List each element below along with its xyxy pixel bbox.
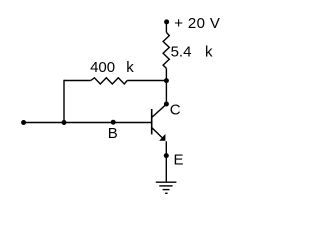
wire emitter down to ground — [165, 141, 167, 182]
transistor Q1 emitter arrowhead — [159, 134, 165, 141]
ground bar 1 — [156, 181, 177, 183]
svg-text:+ 20 V: + 20 V — [174, 15, 220, 32]
svg-text:k: k — [126, 59, 134, 76]
svg-text:B: B — [108, 125, 118, 142]
svg-text:C: C — [170, 102, 181, 119]
transistor Q1 emitter lead — [152, 128, 164, 140]
svg-text:E: E — [174, 152, 184, 169]
wire vertical from 400k to base line — [63, 80, 65, 123]
transistor Q1 base bar — [151, 109, 153, 134]
resistor 400 k — [91, 78, 127, 84]
ground bar 3 — [163, 189, 170, 191]
resistor 5.4 k — [163, 32, 169, 68]
ground bar 2 — [159, 185, 172, 187]
node V+ supply terminal — [164, 19, 169, 24]
svg-text:k: k — [205, 44, 213, 61]
node C collector — [164, 102, 169, 107]
ground bar 4 — [165, 192, 168, 194]
transistor Q1 collector lead — [152, 104, 167, 117]
wire resistor to junction — [165, 68, 167, 80]
node B base — [111, 120, 116, 125]
wire 400k right lead to junction — [127, 80, 166, 82]
wire input to base — [24, 122, 152, 124]
svg-text:5.4: 5.4 — [171, 44, 192, 61]
svg-text:400: 400 — [90, 59, 115, 76]
node junction collector net — [164, 78, 169, 83]
node E emitter — [164, 153, 169, 158]
wire junction down to collector node C — [165, 81, 167, 104]
node junction base net — [62, 120, 67, 125]
wire supply to resistor — [165, 22, 167, 33]
wire 400k left lead — [64, 80, 91, 82]
node input terminal — [21, 120, 26, 125]
